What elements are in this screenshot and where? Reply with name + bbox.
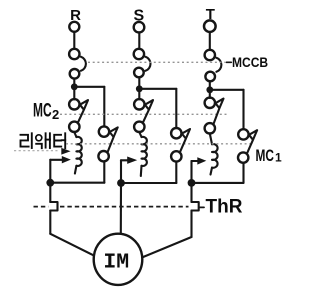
contactor MC2 label <box>33 101 59 122</box>
node R terminal circle <box>69 22 79 32</box>
motor IM circle <box>94 234 143 285</box>
svg-text:2: 2 <box>52 107 59 122</box>
MC1 linkage dashed line <box>66 143 252 145</box>
contactor MC1 contact R <box>98 126 117 161</box>
thermal relay ThR element T <box>192 202 199 211</box>
wire T down to ThR <box>190 183 192 202</box>
node junction R <box>71 83 78 90</box>
svg-text:MC: MC <box>33 101 52 121</box>
reactor L1 tap arrow <box>50 159 62 161</box>
contactor MC1 contact T <box>238 129 257 163</box>
wire R ThR to corner <box>49 211 51 234</box>
MCCB label <box>232 54 268 70</box>
contactor MC2 contact T <box>205 98 224 134</box>
wire R branch lower <box>103 161 105 182</box>
svg-text:ThR: ThR <box>206 196 243 217</box>
contactor MC2 contact S <box>134 99 153 132</box>
wire S branch lower <box>175 162 177 183</box>
svg-text:MCCB: MCCB <box>232 54 268 70</box>
wire S terminal to MCCB <box>138 33 140 49</box>
wire T branch vertical <box>242 90 244 129</box>
ThR label <box>206 196 243 217</box>
reactor L2 (phase S) <box>139 132 147 176</box>
svg-text:1: 1 <box>275 151 282 165</box>
wire R diagonal to motor <box>50 234 94 256</box>
MC2 linkage dashed line <box>60 113 227 115</box>
MCCB label dash <box>226 61 231 63</box>
breaker MCCB pole R <box>69 49 86 79</box>
node R terminal label <box>70 7 81 24</box>
node T terminal circle <box>204 20 216 32</box>
contactor MC1 contact S <box>171 128 190 162</box>
wire T MCCB to MC2 with junction <box>209 81 211 98</box>
wire tap T down <box>190 161 192 183</box>
motor IM label <box>103 250 129 274</box>
wire T terminal to MCCB <box>209 32 211 49</box>
node bottom junction S <box>117 179 125 187</box>
reactor L1 (phase R) <box>74 132 81 174</box>
wire S branch vertical <box>175 89 177 128</box>
reactor label (Korean 리액터) hand-drawn <box>21 133 66 148</box>
wire R MCCB to MC2 with junction <box>73 79 75 100</box>
node bottom junction R <box>46 179 54 187</box>
reactor label dashed leader <box>14 150 58 152</box>
reactor label leader arrowhead <box>61 148 70 155</box>
reactor L3 (phase T) <box>210 134 218 175</box>
node junction T <box>206 86 213 93</box>
contactor MC1 label <box>256 147 283 165</box>
ThR label dash <box>200 206 204 208</box>
wire R down to ThR <box>49 183 51 202</box>
wire T branch lower <box>242 163 244 183</box>
node T terminal label <box>206 6 215 23</box>
node bottom junction T <box>188 179 196 187</box>
node junction S <box>136 85 143 92</box>
wire bottom horizontal R <box>50 182 104 184</box>
MCCB linkage dashed line <box>88 61 225 63</box>
breaker MCCB pole S <box>134 49 151 77</box>
svg-text:MC: MC <box>256 147 274 165</box>
reactor L3 tap arrow <box>192 160 199 162</box>
ThR linkage dashed line <box>34 206 49 208</box>
node S terminal label <box>133 8 144 25</box>
wire S MCCB to MC2 with junction <box>138 77 140 99</box>
svg-text:IM: IM <box>103 250 129 274</box>
wire bottom horizontal S <box>121 182 176 184</box>
wire S down to motor <box>120 183 122 234</box>
wire tap R down <box>49 160 51 183</box>
reactor L2 tap arrow <box>121 159 128 161</box>
node S terminal circle <box>134 22 145 33</box>
wire T branch horizontal <box>210 89 244 91</box>
wire T diagonal to motor <box>142 237 191 257</box>
breaker MCCB pole T <box>205 50 222 81</box>
wire bottom horizontal T <box>192 182 244 184</box>
wire R terminal to MCCB <box>73 32 75 49</box>
wire tap S down <box>120 160 122 183</box>
wire R branch horizontal <box>74 86 104 88</box>
contactor MC2 contact R <box>69 99 88 132</box>
wire R branch vertical <box>103 87 105 127</box>
wire S branch horizontal <box>139 88 176 90</box>
wire T ThR to corner <box>190 211 192 238</box>
thermal relay ThR element R <box>50 202 57 211</box>
